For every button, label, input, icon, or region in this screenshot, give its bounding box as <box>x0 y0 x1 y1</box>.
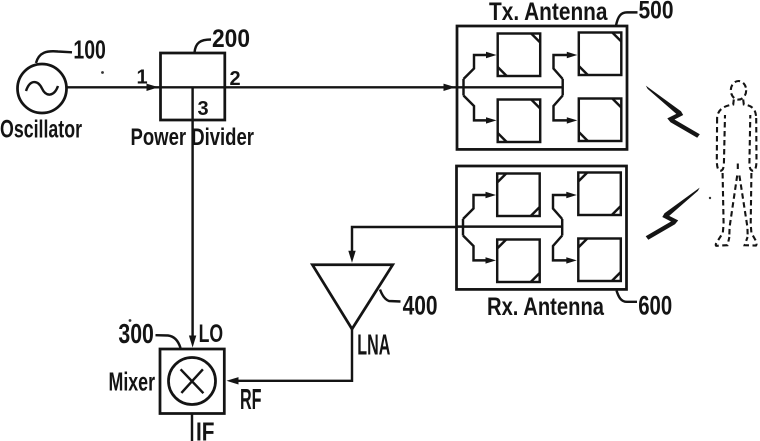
head <box>731 81 746 100</box>
Rx patch bottom-right <box>578 239 621 282</box>
left leg inner <box>729 176 737 237</box>
leader line from 300 <box>156 335 181 348</box>
arrowhead RF into mixer <box>227 377 239 384</box>
LNA 400 amplifier triangle <box>312 265 392 329</box>
svg-text:Tx. Antenna: Tx. Antenna <box>489 0 608 26</box>
svg-text:1: 1 <box>137 67 148 89</box>
mixer circle <box>169 358 216 405</box>
svg-text:200: 200 <box>212 25 250 53</box>
svg-text:RF: RF <box>240 384 262 416</box>
wire IF output <box>191 414 193 441</box>
Rx patch top-left <box>497 174 540 217</box>
left arm <box>717 115 725 171</box>
arrowhead into Tx antenna <box>444 84 456 91</box>
leader line to 100 <box>36 51 72 63</box>
Tx patch bottom-left <box>498 100 541 143</box>
lightning bolt upper (Tx radiation) <box>646 86 700 138</box>
Tx patch bottom-right <box>579 99 622 142</box>
svg-text:400: 400 <box>403 291 438 321</box>
Rx feed splitter left <box>463 195 487 260</box>
svg-text:LO: LO <box>199 320 224 348</box>
leader line to 400 <box>380 290 401 302</box>
neck right and right shoulder <box>743 100 756 119</box>
Rx antenna box <box>457 166 627 289</box>
svg-text:Mixer: Mixer <box>109 367 156 397</box>
Tx feed splitter left <box>464 55 488 120</box>
left leg outer and foot <box>716 173 730 246</box>
right leg inner <box>739 176 747 237</box>
svg-text:3: 3 <box>198 98 209 120</box>
leader line to 500 <box>616 12 638 25</box>
neck left and left shoulder <box>717 100 734 119</box>
arrowhead into LNA <box>348 251 355 263</box>
Rx feed line inside <box>457 225 563 227</box>
wire power divider port 3 down to mixer (LO) <box>191 87 193 336</box>
svg-text:2: 2 <box>230 68 241 90</box>
leader line to 600 <box>617 291 638 302</box>
right leg outer and foot <box>745 173 757 246</box>
Rx patch bottom-left <box>497 240 540 283</box>
svg-text:LNA: LNA <box>357 330 390 362</box>
Tx patch top-left <box>498 34 541 77</box>
scan noise specks <box>101 71 104 74</box>
oscillator 100 <box>18 64 67 113</box>
wire Rx antenna to LNA input <box>352 227 456 251</box>
leader line to 200 <box>195 40 212 53</box>
Tx feed splitter right <box>554 55 569 120</box>
lightning bolt lower (Rx reflection) <box>646 188 700 240</box>
Rx feed splitter right <box>553 195 568 260</box>
svg-text:IF: IF <box>196 417 215 441</box>
svg-text:600: 600 <box>638 291 672 321</box>
Tx antenna 500 assembly <box>457 26 627 149</box>
arrowhead LO into mixer <box>189 336 196 348</box>
torso centerline dash <box>737 164 739 172</box>
svg-text:Rx. Antenna: Rx. Antenna <box>487 293 605 321</box>
human target figure (dashed outline) <box>716 81 757 246</box>
Rx antenna 600 assembly <box>457 166 627 289</box>
arrowhead into power divider port 1 <box>147 84 159 91</box>
power divider 200 box <box>161 53 225 120</box>
svg-text:300: 300 <box>118 318 153 349</box>
mixer 300 box <box>160 349 224 414</box>
svg-text:100: 100 <box>73 35 106 65</box>
wire LNA output to mixer (RF) <box>238 329 352 381</box>
svg-text:Oscillator: Oscillator <box>0 116 82 144</box>
Tx antenna box <box>457 26 627 149</box>
Tx patch top-right <box>579 33 622 76</box>
wire oscillator to power divider and on to Tx antenna feed <box>67 86 563 88</box>
oscillator sine wave <box>26 82 58 95</box>
right arm <box>749 115 756 171</box>
Rx patch top-right <box>578 173 621 216</box>
svg-text:500: 500 <box>639 0 674 25</box>
mixer X <box>181 369 204 393</box>
